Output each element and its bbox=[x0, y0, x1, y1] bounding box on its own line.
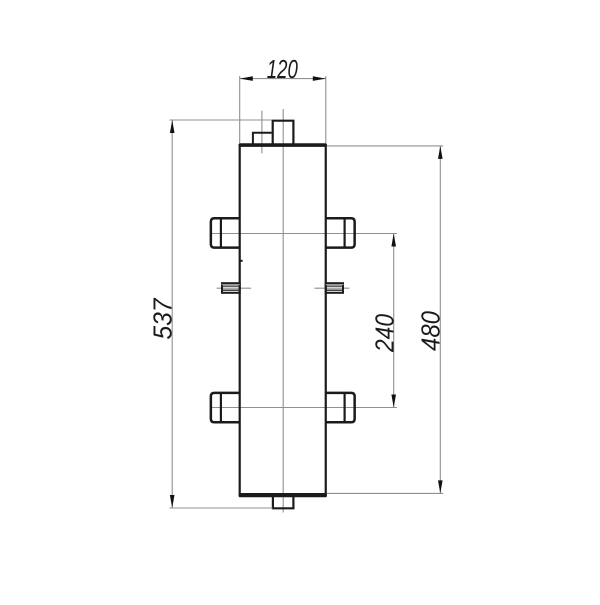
left threaded stub thread line 1 bbox=[221, 285, 240, 287]
svg-text:537: 537 bbox=[148, 297, 178, 339]
body shell left wall bbox=[239, 144, 241, 496]
dim 240 arrow bottom bbox=[391, 395, 396, 408]
dim 537 arrow top bbox=[170, 120, 175, 133]
dim 480 extension line top bbox=[327, 145, 443, 147]
top nozzle bbox=[273, 121, 294, 144]
dim 537 arrow bottom bbox=[170, 495, 175, 508]
dim 120 extension line left bbox=[239, 76, 241, 143]
dim 120 arrow left bbox=[240, 76, 253, 81]
upper right port flange bbox=[325, 218, 354, 247]
bottom nozzle bbox=[273, 497, 294, 508]
right threaded stub bbox=[326, 283, 343, 293]
centerline main vertical axis bbox=[282, 109, 284, 513]
left threaded stub thread line 2 bbox=[221, 289, 240, 291]
dim 240 dimension line bbox=[393, 234, 395, 408]
dim 120 dimension line bbox=[240, 78, 326, 80]
dim 120 extension line right bbox=[325, 76, 327, 143]
lower left port flange face line bbox=[220, 393, 222, 422]
svg-text:120: 120 bbox=[267, 54, 298, 84]
dim 480 arrow bottom bbox=[438, 480, 443, 493]
dim 537 extension line top bbox=[169, 119, 271, 121]
centerline air-vent fitting bbox=[261, 111, 263, 154]
bottom plate bbox=[239, 493, 327, 497]
svg-text:480: 480 bbox=[415, 311, 445, 351]
left threaded stub bbox=[222, 283, 240, 293]
upper left port flange bbox=[211, 218, 240, 247]
body shell right wall bbox=[325, 144, 327, 496]
upper left port flange face line bbox=[220, 218, 222, 247]
top plate bbox=[239, 143, 327, 147]
dim 480 dimension line bbox=[439, 146, 441, 494]
left threaded stub shade bbox=[222, 284, 240, 286]
lower left port flange bbox=[211, 393, 240, 422]
upper right port flange face line bbox=[344, 218, 346, 247]
dim 480 extension line bottom bbox=[327, 492, 443, 494]
weld tick on left wall bbox=[240, 260, 242, 262]
dim 537 dimension line bbox=[171, 120, 173, 508]
centerline lower ports bbox=[211, 407, 397, 409]
dim 537 extension line bottom bbox=[169, 507, 272, 509]
right threaded stub thread line 2 bbox=[326, 289, 344, 291]
lower right port flange face line bbox=[344, 393, 346, 422]
svg-text:240: 240 bbox=[370, 314, 400, 353]
right threaded stub thread line 1 bbox=[326, 285, 344, 287]
air-vent fitting bbox=[253, 133, 272, 144]
dim 480 arrow top bbox=[438, 146, 443, 159]
right threaded stub shade bbox=[326, 284, 344, 286]
dim 240 arrow top bbox=[391, 234, 396, 247]
lower right port flange bbox=[325, 393, 354, 422]
centerline left stub bbox=[217, 287, 252, 289]
centerline right stub bbox=[314, 287, 349, 289]
dim 120 arrow right bbox=[313, 76, 326, 81]
centerline upper ports bbox=[211, 233, 397, 235]
